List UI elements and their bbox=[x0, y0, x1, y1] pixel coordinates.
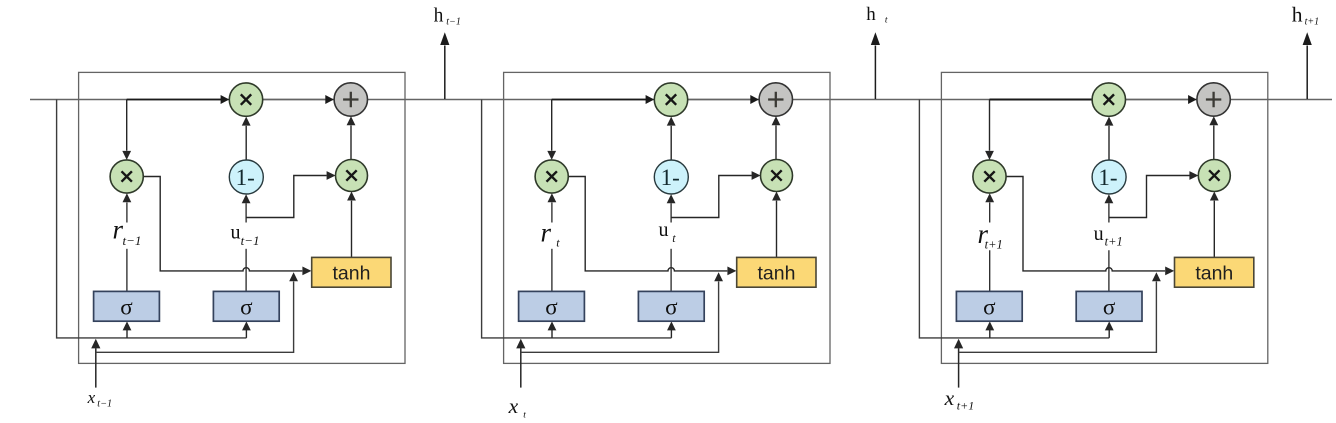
svg-text:tanh: tanh bbox=[1195, 262, 1233, 284]
svg-text:u: u bbox=[659, 219, 669, 241]
svg-text:x: x bbox=[508, 394, 519, 418]
svg-text:t: t bbox=[885, 16, 888, 26]
svg-text:t−1: t−1 bbox=[97, 399, 112, 410]
svg-text:u: u bbox=[1094, 223, 1104, 245]
svg-text:t+1: t+1 bbox=[957, 399, 974, 413]
svg-text:r: r bbox=[541, 217, 552, 247]
svg-text:t−1: t−1 bbox=[241, 233, 260, 248]
svg-text:σ: σ bbox=[1103, 294, 1116, 319]
svg-text:x: x bbox=[944, 386, 955, 410]
svg-text:σ: σ bbox=[240, 294, 253, 319]
svg-text:tanh: tanh bbox=[758, 262, 796, 284]
svg-text:t+1: t+1 bbox=[1105, 235, 1123, 249]
svg-text:h: h bbox=[434, 5, 444, 26]
svg-text:1-: 1- bbox=[1098, 165, 1117, 190]
svg-text:σ: σ bbox=[983, 294, 996, 319]
svg-text:tanh: tanh bbox=[333, 262, 371, 284]
svg-text:t+1: t+1 bbox=[985, 238, 1003, 252]
svg-text:1-: 1- bbox=[236, 165, 255, 190]
svg-text:h: h bbox=[866, 4, 876, 25]
svg-text:σ: σ bbox=[545, 294, 558, 319]
svg-text:σ: σ bbox=[665, 294, 678, 319]
svg-text:h: h bbox=[1292, 2, 1303, 26]
svg-text:t+1: t+1 bbox=[1305, 17, 1320, 28]
svg-text:t−1: t−1 bbox=[123, 233, 142, 248]
svg-text:u: u bbox=[231, 222, 241, 244]
svg-text:t−1: t−1 bbox=[446, 17, 461, 28]
svg-text:σ: σ bbox=[120, 294, 133, 319]
svg-text:t: t bbox=[523, 410, 526, 420]
svg-text:1-: 1- bbox=[661, 165, 680, 190]
svg-text:x: x bbox=[87, 388, 96, 407]
